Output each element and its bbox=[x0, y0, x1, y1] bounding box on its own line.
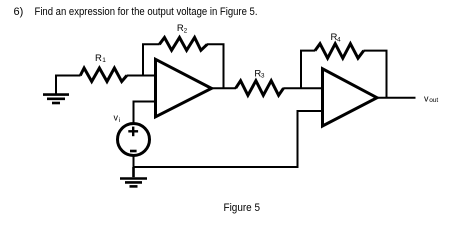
svg-text:Figure 5: Figure 5 bbox=[224, 202, 261, 214]
title text bbox=[14, 6, 258, 18]
svg-text:Find an expression for the out: Find an expression for the output voltag… bbox=[35, 6, 258, 18]
label vi bbox=[114, 112, 121, 124]
wire: R3 to U2 inverting input (node C) bbox=[283, 87, 323, 89]
wire: R1 to op-amp U1 inverting input (node A) bbox=[127, 75, 156, 77]
wire: R4 feedback left vertical from node C bbox=[301, 51, 315, 89]
svg-text:1: 1 bbox=[102, 57, 106, 64]
resistor R3 bbox=[236, 81, 284, 96]
label R1 bbox=[95, 53, 106, 64]
op-amp U1 bbox=[156, 59, 212, 117]
wire: R2 to right vertical down to U1 output bbox=[207, 44, 224, 88]
ground GND1 (left) bbox=[43, 95, 69, 103]
plus sign in VI bbox=[128, 127, 138, 137]
svg-text:2: 2 bbox=[184, 28, 188, 35]
wire: GND1 to R1 bbox=[56, 76, 81, 94]
resistor R2 bbox=[159, 38, 207, 51]
wire: U1 lower input from source vi bbox=[134, 102, 156, 124]
wire: U1 output to R3 bbox=[212, 87, 237, 89]
source VI (circle) bbox=[118, 124, 150, 156]
resistor R4 bbox=[315, 44, 364, 59]
label R3 bbox=[254, 68, 265, 79]
svg-text:6): 6) bbox=[14, 6, 24, 18]
minus sign in VI bbox=[130, 150, 137, 153]
svg-text:3: 3 bbox=[261, 72, 265, 79]
svg-text:i: i bbox=[119, 117, 120, 124]
svg-text:R: R bbox=[95, 53, 102, 64]
label R4 bbox=[331, 32, 342, 44]
ground GND2 (below source) bbox=[120, 167, 147, 186]
svg-text:v: v bbox=[114, 112, 119, 122]
svg-text:out: out bbox=[429, 97, 438, 104]
label vout bbox=[424, 93, 438, 104]
resistor R1 bbox=[80, 68, 127, 82]
label R2 bbox=[177, 23, 188, 34]
op-amp U2 bbox=[323, 69, 378, 126]
wire: VI bottom to ground node B bbox=[133, 156, 135, 169]
svg-text:4: 4 bbox=[337, 37, 341, 44]
wire: R4 right vertical down to U2 output bbox=[364, 51, 387, 98]
wire: U2 output to vout bbox=[377, 97, 416, 99]
wire: bottom rail from node B to U2 noninverting input bbox=[134, 111, 323, 167]
wire: R2 feedback left vertical from node A bbox=[143, 44, 160, 75]
